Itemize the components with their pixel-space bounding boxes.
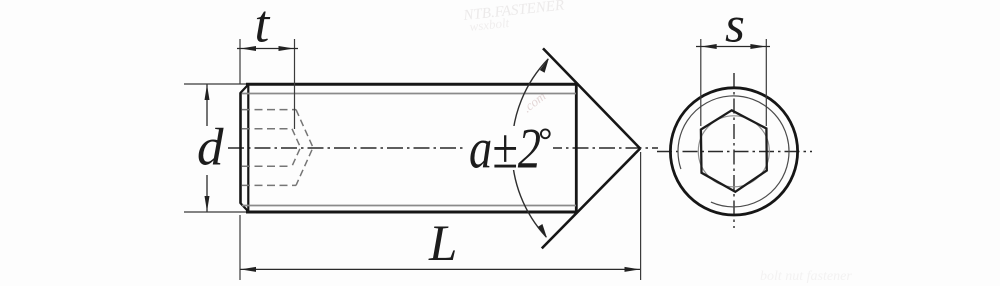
svg-text:a±2: a±2 — [469, 118, 541, 181]
dimension s: extension line left — [700, 39, 702, 126]
dimension t: left arrowhead — [241, 46, 257, 51]
thread crest line top — [242, 93, 576, 95]
svg-text:s: s — [725, 0, 745, 54]
dimension t: right arrowhead — [279, 46, 295, 51]
hidden socket inner dashed line top — [242, 128, 292, 130]
dimension t: dimension line — [237, 48, 298, 50]
dimension s: left arrowhead — [701, 44, 717, 49]
dimension s: right arrowhead — [750, 44, 766, 49]
dimension s: dimension line — [696, 46, 770, 48]
hidden socket inner dashed line bottom — [242, 165, 292, 167]
thread minor circle (3/4 arc with gap bottom-left) — [678, 96, 789, 207]
svg-text:bolt nut fastener: bolt nut fastener — [760, 269, 852, 284]
dimension t: extension line right — [294, 39, 296, 129]
dimension L: dimension line — [240, 268, 640, 270]
dimension d: extension line top — [184, 83, 246, 85]
body left face — [239, 93, 242, 204]
dimension L: extension line right (from cone tip) — [640, 152, 642, 280]
body bottom edge — [246, 211, 577, 214]
angle dimension arc — [512, 59, 548, 237]
body right edge — [575, 83, 578, 213]
dimension t: extension line left — [239, 39, 241, 84]
socket bottom outer chevron (dashed) — [296, 110, 313, 186]
cone point bottom slant — [542, 148, 640, 248]
centerline (horizontal axis of screw) — [228, 147, 658, 149]
hidden socket outer dashed line bottom — [242, 184, 296, 186]
outer circle (major diameter) — [670, 88, 797, 215]
body top edge — [246, 83, 577, 86]
watermark text fragments — [462, 0, 853, 284]
thread crest line bottom — [242, 205, 576, 207]
svg-text:L: L — [428, 216, 457, 272]
chamfer slant bottom-left — [240, 203, 248, 212]
vertical centerline — [733, 73, 735, 228]
hex socket — [701, 110, 767, 192]
svg-text:t: t — [255, 0, 271, 54]
angle arc top arrowhead — [540, 58, 549, 72]
cone point top slant — [543, 48, 640, 148]
degree symbol of a±2° — [541, 129, 550, 138]
dimension L: right arrowhead — [625, 267, 641, 272]
dimension d: bottom arrowhead — [205, 196, 210, 212]
horizontal centerline — [657, 151, 812, 153]
label a±2° backing — [465, 126, 553, 170]
socket chamfer circle — [698, 116, 769, 187]
dimension d: dimension line — [206, 85, 208, 212]
svg-text:d: d — [197, 119, 224, 177]
hidden socket outer dashed line top — [242, 109, 296, 111]
dimension L: left arrowhead — [241, 267, 257, 272]
chamfer slant top-left — [240, 84, 248, 93]
dimension d: extension line bottom — [184, 211, 246, 213]
dimension L: extension line left — [239, 215, 241, 280]
left chamfer boundary line — [247, 84, 249, 212]
dimension d: top arrowhead — [205, 85, 210, 101]
label d (white backing) — [193, 126, 223, 175]
angle arc bottom arrowhead — [538, 224, 547, 238]
socket bottom inner chevron (dashed) — [292, 129, 301, 166]
dimension s: extension line right — [765, 39, 767, 126]
